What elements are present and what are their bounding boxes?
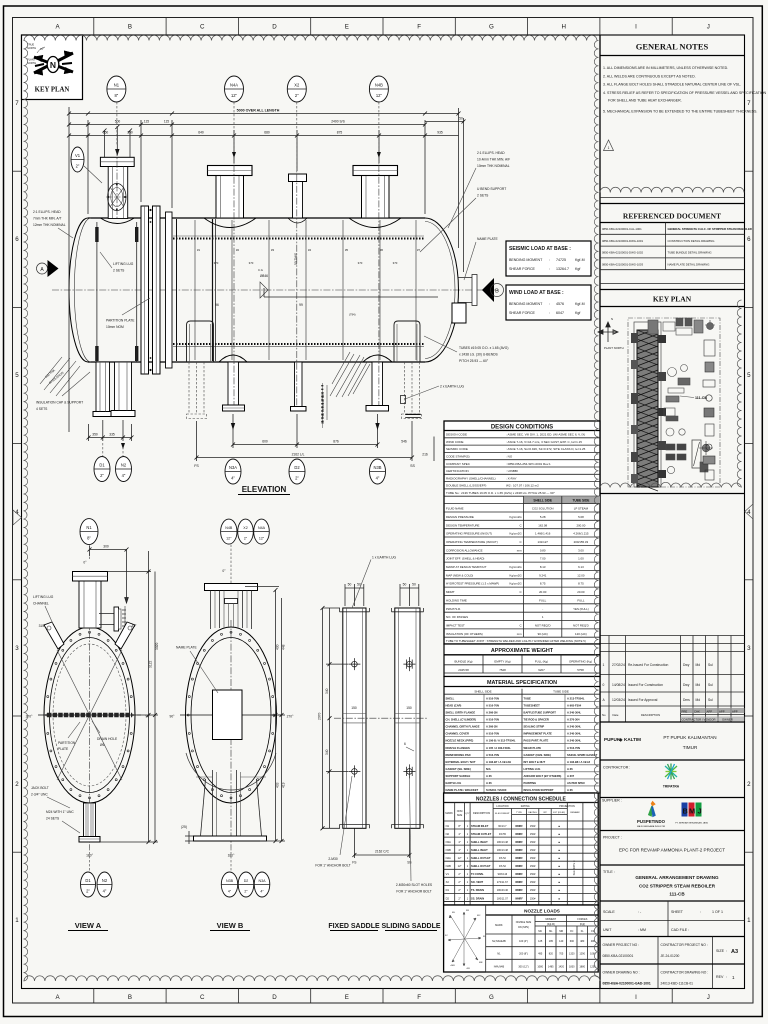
svg-text:NAME PLATE: NAME PLATE	[176, 646, 197, 650]
svg-text:PT PUPUK KALIMANTAN: PT PUPUK KALIMANTAN	[663, 735, 716, 740]
svg-text:YES (FULL): YES (FULL)	[573, 607, 589, 611]
svg-text:FACING: FACING	[529, 811, 537, 814]
svg-text:SHELL OUTLET: SHELL OUTLET	[471, 864, 491, 868]
svg-text:1830: 1830	[569, 965, 575, 968]
svg-text:-: -	[542, 607, 543, 611]
svg-text:A 516-70N: A 516-70N	[486, 696, 499, 700]
svg-text:2-M30: 2-M30	[328, 857, 338, 861]
svg-text:BENDING MOMENT: BENDING MOMENT	[509, 302, 543, 306]
svg-text:CORROSION ALLOWANCE: CORROSION ALLOWANCE	[446, 548, 483, 552]
svg-text:BAFFLE/TUBE SUPPORT: BAFFLE/TUBE SUPPORT	[524, 711, 557, 715]
insulation hatch patch mid	[330, 352, 370, 397]
svg-text:APP: APP	[732, 710, 738, 714]
svg-text:SCALE: SCALE	[603, 910, 615, 914]
svg-text:#7: #7	[417, 248, 421, 252]
svg-text:ELEVATION: ELEVATION	[242, 485, 287, 494]
svg-text:WNRF: WNRF	[515, 833, 523, 836]
svg-text:SHELL INLET: SHELL INLET	[471, 840, 488, 844]
svg-text:LOCATION: LOCATION	[496, 805, 508, 808]
svg-text:50: 50	[412, 583, 416, 587]
svg-text:C: C	[200, 994, 205, 1001]
nozzle centerlines through shell	[117, 149, 379, 406]
svg-text:N3A: N3A	[229, 465, 237, 470]
svg-text:3: 3	[747, 645, 751, 652]
svg-text:CO2 STRIPPER STEAM REBOILER: CO2 STRIPPER STEAM REBOILER	[639, 884, 716, 889]
svg-text:TUBE No : 2136 TUBES 19.05 O.: TUBE No : 2136 TUBES 19.05 O.D. x 1.65 (…	[446, 491, 556, 495]
svg-text:OWNER DRAWING NO :: OWNER DRAWING NO :	[603, 971, 640, 975]
svg-text:WNRF: WNRF	[515, 881, 523, 884]
svg-text:TUBE: TUBE	[524, 696, 532, 700]
dim ticks	[67, 112, 466, 138]
view A shell ellipse	[44, 627, 135, 803]
svg-text:0/6.52: 0/6.52	[499, 857, 507, 860]
svg-text:5. MECHANICAL EXPANSION TO BE: 5. MECHANICAL EXPANSION TO BE EXTENDED T…	[603, 110, 757, 114]
svg-text:A 307: A 307	[567, 774, 575, 778]
svg-text:C.G: C.G	[258, 268, 263, 272]
svg-text:SIZE: SIZE	[457, 814, 463, 817]
svg-text:: U/NBBI: : U/NBBI	[506, 469, 518, 473]
svg-text:FORCES: FORCES	[577, 918, 587, 921]
saddle center line	[334, 717, 428, 719]
svg-text:C: C	[200, 24, 205, 31]
svg-text:5.28: 5.28	[540, 515, 546, 519]
svg-text:12": 12"	[458, 856, 462, 860]
svg-text:MOMENT: MOMENT	[545, 918, 556, 921]
revision table	[600, 636, 745, 723]
svg-text:WNRF: WNRF	[515, 841, 523, 844]
svg-text:1: 1	[15, 917, 19, 924]
svg-text:12": 12"	[458, 864, 462, 868]
svg-text:-FR: -FR	[466, 968, 470, 970]
svg-text:REFERENCED DOCUMENT: REFERENCED DOCUMENT	[623, 212, 721, 221]
svg-text:INSULATION (OF OTHERS): INSULATION (OF OTHERS)	[446, 632, 483, 636]
svg-text:546: 546	[401, 440, 407, 444]
svg-text:X2: X2	[294, 83, 300, 88]
svg-text:5758: 5758	[577, 668, 584, 672]
svg-text:INT. BOLT & NUT: INT. BOLT & NUT	[524, 760, 546, 764]
svg-text:4": 4"	[458, 840, 460, 844]
svg-text:A 266-2N: A 266-2N	[486, 711, 497, 715]
top nozzle N1	[100, 149, 134, 224]
svg-text:SUS304 / SS400: SUS304 / SS400	[486, 788, 507, 792]
svg-text:3. ALL FLANGE BOLT HOLES SHALL: 3. ALL FLANGE BOLT HOLES SHALL STRADDLE …	[603, 83, 741, 87]
svg-text:WEAR PLATE: WEAR PLATE	[524, 746, 542, 750]
svg-text:N4A: N4A	[446, 856, 451, 860]
svg-text:A 36: A 36	[567, 788, 573, 792]
svg-text:50: 50	[403, 583, 407, 587]
svg-text:120 (HC): 120 (HC)	[575, 632, 587, 636]
svg-text:D1: D1	[446, 888, 450, 892]
svg-text:H: H	[561, 994, 565, 1001]
svg-text:A 276-304: A 276-304	[567, 718, 580, 722]
svg-text:Sul: Sul	[708, 663, 713, 667]
key plan compass	[598, 322, 618, 342]
svg-text:3.00: 3.00	[578, 548, 584, 552]
saddle wear plates on shell	[187, 321, 421, 362]
svg-text:7: 7	[15, 100, 19, 107]
svg-text::: :	[549, 258, 550, 262]
svg-text:12": 12"	[226, 537, 232, 541]
svg-text:KEY PLAN: KEY PLAN	[35, 87, 70, 94]
svg-text:8.13: 8.13	[540, 565, 546, 569]
svg-text:NO. OF PASSES: NO. OF PASSES	[446, 615, 468, 619]
svg-text:SS. DRAIN: SS. DRAIN	[471, 896, 484, 900]
svg-text:111-CB: 111-CB	[669, 892, 685, 897]
svg-text:CO2 SOLUTION: CO2 SOLUTION	[532, 507, 554, 511]
unit / cad file row	[667, 921, 669, 937]
svg-text:CH. SHELL (CYLINDER): CH. SHELL (CYLINDER)	[446, 718, 477, 722]
svg-text:WNRF: WNRF	[515, 849, 523, 852]
svg-text:A 516-70N: A 516-70N	[567, 746, 580, 750]
right panel divider	[599, 35, 601, 989]
vessel centerline	[52, 289, 500, 291]
svg-text:680: 680	[264, 131, 270, 135]
svg-text:FLUID NAME: FLUID NAME	[446, 507, 464, 511]
svg-text:REINFORCING PAD: REINFORCING PAD	[446, 753, 471, 757]
svg-text:A 240-304L: A 240-304L	[567, 739, 581, 743]
svg-text:D1: D1	[99, 463, 105, 468]
bottom nozzle N3B	[363, 355, 392, 411]
svg-text:PRE: PRE	[682, 710, 688, 714]
svg-text:12.00: 12.00	[577, 573, 585, 577]
svg-text:180/11.07: 180/11.07	[497, 897, 509, 900]
view B top plate & nozzles	[205, 584, 258, 630]
svg-text:Sul: Sul	[708, 683, 713, 687]
view A top nozzle	[73, 572, 108, 629]
key plan section header	[600, 283, 745, 285]
svg-text:8.75: 8.75	[540, 582, 546, 586]
svg-text:340: 340	[325, 688, 329, 694]
svg-text:G: G	[489, 994, 494, 1001]
svg-text:820: 820	[549, 953, 554, 956]
svg-text:NAME PLATE / BRACKET: NAME PLATE / BRACKET	[446, 788, 479, 792]
right margin zone flag	[745, 504, 753, 519]
svg-text:A 516-70N: A 516-70N	[486, 718, 499, 722]
svg-text:(Kgf): (Kgf)	[580, 924, 585, 926]
svg-text:2": 2"	[458, 872, 460, 876]
svg-text:2": 2"	[458, 896, 460, 900]
svg-text:A 193-B8 / A 194-8: A 193-B8 / A 194-8	[567, 760, 591, 764]
view B name plate	[213, 690, 243, 740]
svg-text:1.466/1.416: 1.466/1.416	[535, 532, 551, 536]
referenced document table	[600, 223, 745, 270]
north arrow	[34, 51, 73, 75]
svg-text:REV: REV	[716, 975, 724, 979]
svg-text:Kgf: Kgf	[575, 311, 580, 315]
svg-text:Date: Date	[613, 713, 619, 717]
svg-text:Kg/cm2G: Kg/cm2G	[510, 515, 523, 519]
svg-text:600: 600	[262, 440, 268, 444]
svg-text:EPC FOR REVAMP AMMONIA PLANT-2: EPC FOR REVAMP AMMONIA PLANT-2 PROJECT	[619, 848, 725, 853]
view A crosshair	[38, 714, 141, 716]
svg-text:876: 876	[333, 440, 339, 444]
svg-text:N3B: N3B	[446, 848, 451, 852]
svg-text:2162 C/C: 2162 C/C	[375, 850, 390, 854]
bottom nozzles under channel	[93, 362, 135, 417]
view B saddle	[186, 753, 276, 841]
svg-text:#5: #5	[345, 248, 349, 252]
svg-text:Dwy: Dwy	[683, 663, 690, 667]
svg-text:195: 195	[549, 940, 554, 943]
svg-text:APPROXIMATE WEIGHT: APPROXIMATE WEIGHT	[491, 648, 554, 654]
section flag B	[482, 278, 494, 302]
svg-text:CAD FILE :: CAD FILE :	[671, 928, 689, 932]
svg-text:TUBE SIDE: TUBE SIDE	[553, 690, 569, 694]
flange bolts	[149, 209, 151, 211]
svg-text:D2: D2	[294, 465, 300, 470]
svg-text:3122: 3122	[149, 660, 153, 668]
view A bottom balloons	[81, 872, 96, 897]
svg-text:MATERIAL SPECIFICATION: MATERIAL SPECIFICATION	[487, 680, 557, 686]
svg-text:6: 6	[404, 742, 406, 746]
sliding saddle slot holes	[403, 657, 415, 778]
svg-text:A 36: A 36	[486, 781, 492, 785]
svg-text:2": 2"	[76, 164, 80, 169]
svg-text:STEAM OUTLET: STEAM OUTLET	[471, 832, 492, 836]
svg-text:HEAD (CAP): HEAD (CAP)	[446, 703, 462, 707]
svg-text:IMPINGEMENT PLATE: IMPINGEMENT PLATE	[524, 732, 553, 736]
svg-text:SS: SS	[410, 464, 415, 468]
svg-text:2-3/4" UNC: 2-3/4" UNC	[31, 793, 48, 797]
key plan plant layout	[628, 318, 720, 487]
svg-text:150#: 150#	[530, 865, 536, 868]
svg-text:N2: N2	[121, 463, 127, 468]
right-side labels	[477, 151, 510, 241]
view B top balloons	[221, 519, 237, 544]
svg-text:14/08/24: 14/08/24	[612, 683, 625, 687]
svg-text:E: E	[345, 24, 349, 31]
svg-text:PARTITION: PARTITION	[58, 741, 76, 745]
svg-text:D: D	[272, 994, 277, 1001]
svg-text::: :	[549, 311, 550, 315]
svg-text:NOZZLES / CONNECTION SCHEDULE: NOZZLES / CONNECTION SCHEDULE	[476, 796, 567, 802]
svg-text:DESIGN CODE: DESIGN CODE	[446, 433, 467, 437]
svg-text:4": 4"	[376, 476, 380, 481]
saddle left dims	[323, 608, 349, 828]
svg-text:2 SETS: 2 SETS	[113, 269, 125, 273]
svg-text:935: 935	[437, 131, 443, 135]
svg-text:WNRF: WNRF	[515, 897, 523, 900]
svg-text:4: 4	[747, 509, 751, 516]
svg-text:OPERATING TEMPERATURE (IN/OUT): OPERATING TEMPERATURE (IN/OUT)	[446, 540, 498, 544]
svg-text:90 THK INSULATION: 90 THK INSULATION	[321, 392, 325, 424]
svg-text:6: 6	[15, 236, 19, 243]
svg-text:FC: FC	[570, 930, 573, 933]
svg-text:1. ALL DIMENSIONS ARE IN MILLI: 1. ALL DIMENSIONS ARE IN MILLIMETERS, UN…	[603, 66, 728, 70]
svg-text:NOZZLE NECK (PIPE): NOZZLE NECK (PIPE)	[446, 739, 474, 743]
third dim row	[69, 130, 459, 171]
head label left	[33, 210, 66, 227]
shell bottom	[88, 361, 425, 363]
key plan mid equipment	[664, 365, 713, 474]
svg-text:A 240-304L: A 240-304L	[567, 732, 581, 736]
svg-text:N: N	[50, 60, 56, 70]
svg-text:: 0850-KBA-254-SPC-0001 Rev.1: : 0850-KBA-254-SPC-0001 Rev.1	[506, 462, 551, 466]
left head	[69, 218, 88, 362]
svg-text:TUBE SIDE: TUBE SIDE	[572, 499, 589, 503]
svg-text:INSULATION CAP & SUPPORT: INSULATION CAP & SUPPORT	[36, 401, 83, 405]
svg-text:G: G	[489, 24, 494, 31]
svg-text:SHELL OUTLET: SHELL OUTLET	[471, 856, 491, 860]
svg-text:MC: MC	[538, 930, 542, 933]
svg-text:Ø6: Ø6	[100, 743, 105, 747]
revision cloud top	[24, 35, 597, 40]
nozzle loads orientation sketch	[448, 912, 481, 966]
svg-text:WNRF: WNRF	[515, 873, 523, 876]
svg-text:EMPTY (Kg): EMPTY (Kg)	[494, 659, 510, 663]
svg-text:162.08: 162.08	[538, 523, 547, 527]
svg-text:AS PER SPEC: AS PER SPEC	[567, 781, 585, 785]
svg-text:NOZZLE FLANGES: NOZZLE FLANGES	[446, 746, 471, 750]
bundle support rails	[176, 219, 178, 361]
svg-text:20.00: 20.00	[577, 590, 585, 594]
svg-text:MARK: MARK	[445, 811, 453, 815]
svg-text:A 516-70N: A 516-70N	[486, 753, 499, 757]
svg-text:B: B	[128, 994, 132, 1001]
svg-text:N1: N1	[86, 525, 92, 530]
right zone numbers	[747, 100, 751, 924]
svg-text:DRAIN HOLE: DRAIN HOLE	[97, 737, 118, 741]
svg-text:DESIGN TEMPERATURE: DESIGN TEMPERATURE	[446, 523, 480, 527]
svg-text:B: B	[495, 288, 499, 294]
svg-text:F: F	[417, 994, 421, 1001]
svg-text:Kgf-M: Kgf-M	[575, 302, 585, 306]
svg-text:WNRF: WNRF	[515, 865, 523, 868]
bottom dims of elevation	[89, 414, 435, 461]
svg-text:5: 5	[15, 372, 19, 379]
svg-text:1880: 1880	[579, 965, 585, 968]
fixed saddle plan	[340, 608, 370, 828]
svg-text:5.08: 5.08	[578, 515, 584, 519]
top zone letters	[56, 24, 710, 31]
svg-text::: :	[549, 267, 550, 271]
svg-text:1250: 1250	[590, 965, 596, 968]
svg-text:2400 S/S: 2400 S/S	[331, 120, 345, 124]
svg-text:JE-24-01200: JE-24-01200	[661, 954, 680, 958]
channel girth flanges	[141, 206, 160, 374]
svg-text:300 (12"): 300 (12")	[518, 965, 528, 968]
svg-text:N4B: N4B	[446, 864, 451, 868]
svg-text:SEISMIC CODE: SEISMIC CODE	[446, 447, 468, 451]
svg-text:HYDROTEST PRESSURE (1.3 x MAWP: HYDROTEST PRESSURE (1.3 x MAWP)	[446, 582, 499, 586]
svg-text:2: 2	[15, 781, 19, 788]
svg-text:E: E	[345, 994, 349, 1001]
svg-text:NOT REQ'D: NOT REQ'D	[535, 624, 551, 628]
svg-text:8": 8"	[115, 93, 119, 98]
svg-text:150#: 150#	[530, 833, 536, 836]
svg-text:C: C	[520, 590, 522, 594]
svg-text:TUBE BUNDLE DETAIL DRAWING: TUBE BUNDLE DETAIL DRAWING	[668, 251, 712, 255]
CG reference line	[264, 296, 438, 298]
svg-text:7528: 7528	[499, 668, 506, 672]
svg-text:FR: FR	[466, 910, 469, 912]
svg-text:370: 370	[358, 261, 363, 265]
svg-text:150#: 150#	[530, 897, 536, 900]
svg-text:A 516-70N: A 516-70N	[486, 732, 499, 736]
svg-text:150#: 150#	[530, 873, 536, 876]
svg-text:1: 1	[732, 975, 735, 980]
svg-text:VIEW A: VIEW A	[75, 921, 102, 930]
svg-text:A 213-TP304L: A 213-TP304L	[567, 696, 585, 700]
svg-text:SLIDING SADDLE: SLIDING SADDLE	[381, 923, 440, 930]
svg-text:150#: 150#	[530, 881, 536, 884]
svg-text:SEISMIC LOAD AT BASE :: SEISMIC LOAD AT BASE :	[509, 246, 571, 252]
svg-text:90°: 90°	[170, 715, 176, 719]
svg-text:SS304L SPWD GASKET: SS304L SPWD GASKET	[567, 753, 598, 757]
svg-text:1: 1	[747, 917, 751, 924]
svg-text:2": 2"	[295, 476, 299, 481]
svg-text:448: 448	[282, 644, 286, 650]
drawing no row	[657, 964, 659, 989]
svg-text:SEALING STRIP: SEALING STRIP	[524, 725, 545, 729]
svg-text:SIZE: SIZE	[716, 949, 725, 953]
svg-text:FULL (Kg): FULL (Kg)	[535, 659, 548, 663]
left zone numbers	[15, 100, 19, 924]
svg-text:PITCH 25.93 — 60°: PITCH 25.93 — 60°	[459, 359, 489, 363]
revision cloud kpright	[737, 300, 741, 487]
svg-text:CODE STAMP(S): CODE STAMP(S)	[446, 455, 470, 459]
svg-text:RATING: RATING	[521, 805, 530, 808]
svg-text:N1: N1	[114, 83, 120, 88]
svg-text:CONSTRUCTION DETAIL DRAWING: CONSTRUCTION DETAIL DRAWING	[668, 239, 715, 243]
key plan right column extras	[703, 340, 715, 480]
svg-text:STEAM INLET: STEAM INLET	[471, 824, 489, 828]
svg-text:N2: N2	[446, 832, 450, 836]
svg-text:2 x EARTH LUG: 2 x EARTH LUG	[440, 385, 465, 389]
svg-text:3020: 3020	[155, 642, 159, 650]
svg-text:SUPPLIER :: SUPPLIER :	[602, 799, 622, 803]
svg-text:140: 140	[559, 940, 564, 943]
svg-text:8": 8"	[87, 536, 91, 541]
svg-text:DESIGN CONDITIONS: DESIGN CONDITIONS	[491, 424, 553, 430]
revision cloud left	[24, 41, 28, 982]
svg-text:SHELL GIRTH FLANGE: SHELL GIRTH FLANGE	[446, 711, 476, 715]
svg-text:PT. BERKAH MEKANISASI JAYA: PT. BERKAH MEKANISASI JAYA	[675, 822, 708, 825]
svg-text:2": 2"	[295, 93, 299, 98]
top nozzle N4A	[204, 166, 256, 228]
shell top	[88, 217, 425, 219]
svg-text:NAME PLATE DETAIL DRAWING: NAME PLATE DETAIL DRAWING	[668, 262, 710, 266]
svg-text:A 965-F304: A 965-F304	[567, 703, 582, 707]
svg-text:150#: 150#	[530, 825, 536, 828]
svg-text:4 SETS: 4 SETS	[36, 407, 48, 411]
svg-text:CHANNEL COVER: CHANNEL COVER	[446, 732, 469, 736]
svg-text:TIE ROD & SPACER: TIE ROD & SPACER	[524, 718, 549, 722]
svg-text:(25): (25)	[181, 825, 187, 829]
svg-text:ELEV/ORIENT: ELEV/ORIENT	[495, 813, 510, 815]
svg-text:0/6.52: 0/6.52	[499, 865, 507, 868]
svg-text:A 516-70N: A 516-70N	[486, 703, 499, 707]
svg-text:1 x EARTH LUG: 1 x EARTH LUG	[372, 556, 397, 560]
svg-text:mm: mm	[517, 632, 522, 636]
svg-text:7.00: 7.00	[540, 557, 546, 561]
svg-text:DOUBLE SHELL (LS/SS/EFF): DOUBLE SHELL (LS/SS/EFF)	[446, 484, 486, 488]
baffle spacing dims	[214, 261, 398, 265]
svg-text:X2: X2	[446, 880, 450, 884]
svg-text:9207: 9207	[538, 668, 545, 672]
tube bundle envelope (dark dotted)	[173, 237, 424, 239]
svg-text:: ASME SEC. VIII DIV. 1, 2021: : ASME SEC. VIII DIV. 1, 2021 ED. (W/ AS…	[506, 433, 585, 437]
svg-text:: X-RAY: : X-RAY	[506, 476, 517, 480]
svg-text:N3A: N3A	[446, 840, 451, 844]
svg-text:640: 640	[198, 131, 204, 135]
svg-text:C: C	[520, 540, 522, 544]
svg-text:: ASCE 7-16, Ss=0.926, S1=0.37: : ASCE 7-16, Ss=0.926, S1=0.372, SITE CL…	[506, 447, 586, 451]
svg-text:13264.7: 13264.7	[556, 267, 569, 271]
svg-text:200 (8"): 200 (8")	[519, 953, 528, 956]
svg-text:4": 4"	[122, 473, 126, 478]
svg-text:216: 216	[422, 453, 428, 457]
